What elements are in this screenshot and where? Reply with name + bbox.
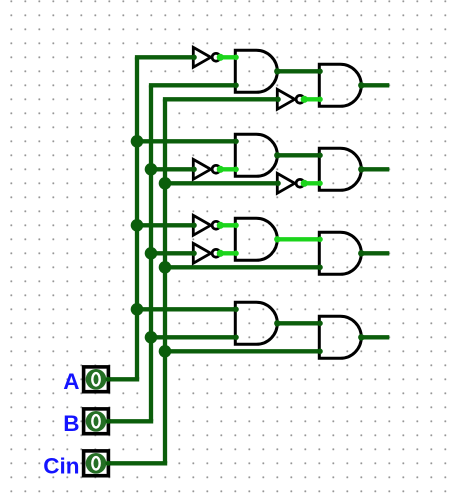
AND gate A3 (235, 134, 277, 176)
junction on V3 row3 (159, 261, 172, 274)
wire AND1 output to AND2 input (277, 69, 319, 73)
wire V3 branch to AND6 input 2 (165, 265, 319, 269)
wire NOT1b output (high) (301, 96, 320, 103)
port dots AND3 (233, 139, 280, 173)
junction on V1 row4 (131, 303, 144, 316)
junction on V1 row3 (131, 219, 144, 232)
wire AND3 output to AND4 input (277, 153, 319, 157)
port dots AND7 (233, 307, 280, 341)
wire pin B to bus V2 (108, 419, 153, 423)
wire V2 branch to AND7 input 2 (151, 335, 235, 339)
junction on V2 row3 (145, 247, 158, 260)
wire V1 branch to NOT3a input (137, 223, 193, 227)
junction on V1 row2 (131, 135, 144, 148)
svg-text:Cin: Cin (43, 454, 79, 479)
wire NOT1a output (high) (217, 54, 236, 61)
wire NOT2a output (high) (217, 166, 236, 173)
wire NOT2b output (high) (301, 180, 320, 187)
wire V2 top to AND1 input 2 (149, 83, 235, 87)
wire V2 branch to NOT3b input (151, 251, 193, 255)
port dots AND2 (317, 69, 364, 103)
wire NOT3b output (high) (217, 250, 236, 257)
wire bus V2 vertical (net B) (149, 85, 153, 421)
junction on V3 row2 (159, 177, 172, 190)
wire V3 branch to AND8 input 2 (165, 349, 319, 353)
wire V1 top to NOT1a input (135, 55, 193, 59)
wire output stub row 2 (361, 167, 389, 171)
port dots AND4 (317, 153, 364, 187)
AND gate A5 (235, 218, 277, 260)
wire AND5 output to AND6 input (high) (277, 237, 319, 241)
input pin Cin (84, 451, 111, 476)
inverter NOT2a (193, 159, 220, 179)
port dots AND1 (233, 55, 280, 89)
input pin A (84, 367, 111, 392)
wire bus V3 vertical (net Cin) (163, 99, 167, 463)
inverter NOT1b (277, 89, 304, 109)
wire NOT3a output (high) (217, 222, 236, 229)
inverter NOT3a (193, 215, 220, 235)
wire output stub row 4 (361, 335, 389, 339)
AND gate A1 (235, 50, 277, 92)
AND gate A4 (319, 148, 361, 190)
wire pin Cin to bus V3 (108, 461, 167, 465)
AND gate A2 (319, 64, 361, 106)
wire output stub row 3 (361, 251, 389, 255)
wire bus V1 vertical (net A) (135, 57, 139, 379)
inverter NOT1a (193, 47, 220, 67)
junction on V3 row4 (159, 345, 172, 358)
junction on V2 row2 (145, 163, 158, 176)
svg-text:B: B (63, 411, 79, 436)
inverter NOT3b (193, 243, 220, 263)
junction on V2 row4 (145, 331, 158, 344)
wire output stub row 1 (361, 83, 389, 87)
inverter NOT2b (277, 173, 304, 193)
wire V2 branch to NOT2a input (151, 167, 193, 171)
wire AND7 output to AND8 input (277, 321, 319, 325)
port dots NOT inputs (191, 55, 281, 257)
wire V1 branch to AND3 input 1 (137, 139, 235, 143)
port dots AND6 (317, 237, 364, 271)
wire V3 branch to NOT2b input (165, 181, 277, 185)
wire pin A to bus V1 (108, 377, 139, 381)
input pin B (84, 409, 111, 434)
AND gate A8 (319, 316, 361, 358)
svg-text:A: A (63, 369, 79, 394)
wire V3 top to NOT1b input (163, 97, 277, 101)
port dots AND8 (317, 321, 364, 355)
port dots AND5 (233, 223, 280, 257)
AND gate A7 (235, 302, 277, 344)
AND gate A6 (319, 232, 361, 274)
wire V1 branch to AND7 input 1 (137, 307, 235, 311)
